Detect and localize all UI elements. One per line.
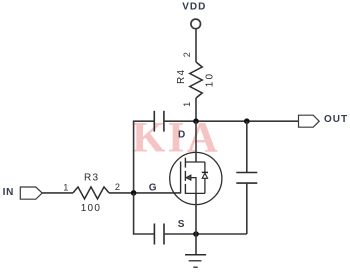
node OUT-branch junction dot [244,118,250,124]
svg-text:VDD: VDD [182,1,206,12]
svg-text:OUT: OUT [324,114,348,125]
svg-text:R4: R4 [176,69,187,84]
node G junction dot [131,190,137,196]
wire output cap down to S row [246,183,248,234]
wire R3 to gate [109,192,181,194]
wire feedback loop left vertical G to D row [134,121,155,193]
wire drain lead [195,121,197,162]
wire IN to R3 [42,192,73,194]
transistor Q1 body circle [170,152,222,204]
svg-text:G: G [149,183,157,194]
capacitor C-top (between loop and drain) [154,111,164,132]
svg-text:10: 10 [205,72,216,88]
node S junction dot [193,231,199,237]
svg-text:1: 1 [63,182,68,192]
terminal OUT [299,115,320,127]
transistor gate bar [180,162,182,194]
wire cap to OUT row [164,120,299,122]
resistor R4 [190,62,202,98]
body diode triangle [202,173,207,178]
body diode lower lead [204,178,206,193]
body diode cathode bar [202,171,208,173]
wire VDD to R4 [195,29,197,62]
svg-text:100: 100 [81,203,101,214]
wire source lead and to ground [195,193,197,254]
node D junction dot [193,118,199,124]
transistor source internal line [185,192,205,194]
svg-text:IN: IN [3,187,15,198]
wire G loop down to bottom cap [134,193,155,234]
resistor R3 [73,187,109,199]
transistor channel segment bottom [184,184,186,194]
wire right branch D row down to output cap [246,121,248,172]
svg-text:2: 2 [182,52,192,57]
svg-text:R3: R3 [84,172,99,183]
capacitor C-out [236,173,257,184]
wire bottom cap to S row [164,233,247,235]
transistor body connection line [191,178,196,194]
transistor body arrow [186,175,191,180]
svg-text:S: S [178,219,185,230]
transistor drain internal line [185,161,205,163]
terminal IN [20,187,42,199]
transistor channel segment top [184,158,186,168]
svg-text:2: 2 [115,182,120,192]
power terminal VDD [191,19,201,29]
svg-text:1: 1 [182,102,192,107]
transistor channel segment middle [184,171,186,181]
body diode upper lead [204,162,206,172]
ground [185,255,206,268]
wire R4 to node D [195,98,197,121]
svg-text:D: D [178,130,185,141]
capacitor C-bottom (gate-source) [154,224,164,245]
